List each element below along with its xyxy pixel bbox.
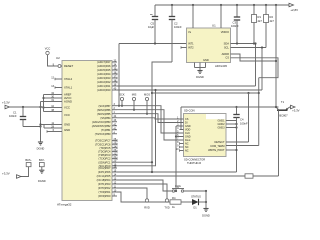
svg-text:CS: CS [225,56,229,60]
svg-text:(SDA)PC1: (SDA)PC1 [98,160,111,164]
svg-text:(TCK)PC2: (TCK)PC2 [99,157,112,161]
svg-text:GND: GND [64,123,70,127]
svg-text:(INT1)PD3: (INT1)PD3 [98,182,111,186]
svg-text:(TOSC1)PC6: (TOSC1)PC6 [95,142,111,146]
svg-text:ADXL345: ADXL345 [215,64,227,68]
svg-text:(TDI)PC5: (TDI)PC5 [100,146,112,150]
svg-text:C2: C2 [174,22,178,26]
svg-text:C1: C1 [13,111,17,115]
svg-text:DGND: DGND [196,75,204,79]
svg-text:(SS)PB4: (SS)PB4 [100,116,111,120]
svg-text:SCK: SCK [119,93,125,97]
svg-text:4k7: 4k7 [270,19,275,23]
svg-text:DGND: DGND [38,179,46,183]
svg-text:(OC1A)PD5: (OC1A)PD5 [97,174,111,178]
svg-text:1k: 1k [172,205,175,209]
svg-text:(ADC3)PA3: (ADC3)PA3 [97,76,111,80]
svg-text:THD/THD-R: THD/THD-R [187,161,201,165]
svg-text:(ADC1)PA1: (ADC1)PA1 [97,84,111,88]
svg-text:U1: U1 [212,24,216,28]
svg-text:XTAL2: XTAL2 [64,77,73,81]
svg-text:SCL: SCL [224,46,230,50]
svg-text:R1: R1 [258,15,262,19]
svg-text:U2: U2 [56,56,60,60]
svg-text:AGND: AGND [64,100,72,104]
svg-text:DGND: DGND [37,147,45,151]
svg-text:12: 12 [51,76,54,79]
svg-text:RXD: RXD [144,206,150,210]
svg-text:D1: D1 [193,206,197,210]
svg-text:(TDO)PC4: (TDO)PC4 [98,150,111,154]
svg-text:BAT-: BAT- [39,158,45,162]
svg-text:(AIN0/INT2)PB2: (AIN0/INT2)PB2 [92,124,111,128]
svg-text:BC807: BC807 [279,114,288,118]
svg-text:SD-CON: SD-CON [184,109,195,113]
svg-text:100nF: 100nF [240,121,248,125]
svg-text:(RXD)PD0: (RXD)PD0 [98,194,111,198]
svg-text:C4: C4 [240,118,244,122]
svg-text:MIS: MIS [132,93,137,97]
svg-text:(ADC7)PA7: (ADC7)PA7 [97,60,111,64]
svg-text:T1: T1 [281,100,285,104]
svg-text:TXD: TXD [164,206,169,210]
svg-text:(T0/XCK)PB0: (T0/XCK)PB0 [95,132,111,136]
svg-text:(MISO)PB6: (MISO)PB6 [97,108,111,112]
svg-text:MOS: MOS [144,93,150,97]
svg-text:INT1: INT1 [188,42,194,46]
svg-text:+2,8V: +2,8V [290,8,298,12]
svg-text:RESET: RESET [64,64,73,68]
svg-text:(T1)PB1: (T1)PB1 [101,128,111,132]
svg-text:10µF: 10µF [148,25,155,29]
svg-text:100nF: 100nF [174,25,182,29]
svg-text:(ADC5)PA5: (ADC5)PA5 [97,68,111,72]
svg-text:(AIN1/OC0)PB3: (AIN1/OC0)PB3 [92,120,111,124]
svg-text:(SCK)PB7: (SCK)PB7 [99,104,112,108]
svg-text:(TMS)PC3: (TMS)PC3 [98,153,111,157]
svg-text:(ADC6)PA6: (ADC6)PA6 [97,64,111,68]
svg-text:SDA: SDA [224,42,230,46]
svg-text:GND3: GND3 [218,127,226,130]
svg-text:+3,3V: +3,3V [292,109,300,113]
svg-text:(ICP1)PD6: (ICP1)PD6 [98,170,111,174]
svg-text:NC: NC [185,150,189,153]
svg-text:GND: GND [64,128,70,132]
svg-text:(MOSI)PB5: (MOSI)PB5 [97,112,111,116]
svg-text:VDDIO: VDDIO [221,30,229,34]
svg-text:13: 13 [51,85,54,88]
svg-text:C5: C5 [151,22,155,26]
svg-text:(TXD)PD1: (TXD)PD1 [99,190,112,194]
svg-text:4k7: 4k7 [258,19,263,23]
svg-text:BAT+: BAT+ [25,158,32,162]
svg-text:(ADC4)PA4: (ADC4)PA4 [97,72,111,76]
svg-text:AREF: AREF [64,93,72,97]
svg-text:COM_TERM: COM_TERM [210,145,224,148]
svg-text:(TOSC2)PC7: (TOSC2)PC7 [95,139,111,143]
svg-text:(INT0)PD2: (INT0)PD2 [98,186,111,190]
svg-text:(ADC2)PA2: (ADC2)PA2 [97,80,111,84]
svg-text:R4: R4 [172,196,176,200]
svg-text:INT2: INT2 [188,46,194,50]
svg-text:C3: C3 [233,21,237,25]
svg-text:100nF: 100nF [231,24,239,28]
svg-text:STATUS: STATUS [191,195,201,199]
svg-text:(OC2)PD7: (OC2)PD7 [98,166,111,170]
svg-text:(OC1B)PD4: (OC1B)PD4 [97,178,111,182]
svg-text:DGND: DGND [202,214,210,218]
svg-text:VCC: VCC [64,113,70,117]
svg-text:100nF: 100nF [9,114,17,118]
svg-text:DETECT: DETECT [215,141,225,144]
svg-text:(ADC0)PA0: (ADC0)PA0 [97,88,111,92]
svg-text:WRITE_PROT: WRITE_PROT [208,149,225,152]
svg-text:VCC: VCC [45,47,51,51]
svg-text:+3,3V: +3,3V [2,101,10,105]
svg-text:R2: R2 [270,15,274,19]
svg-text:GND: GND [203,58,209,62]
svg-text:ATmega32: ATmega32 [57,203,72,207]
svg-text:SD-CONNECTOR: SD-CONNECTOR [184,158,205,162]
svg-text:VCC: VCC [64,106,70,110]
svg-text:AVCC: AVCC [64,96,71,100]
svg-text:ADDR: ADDR [222,52,229,56]
svg-text:+3,3V: +3,3V [2,172,10,176]
svg-text:XTAL1: XTAL1 [64,86,73,90]
